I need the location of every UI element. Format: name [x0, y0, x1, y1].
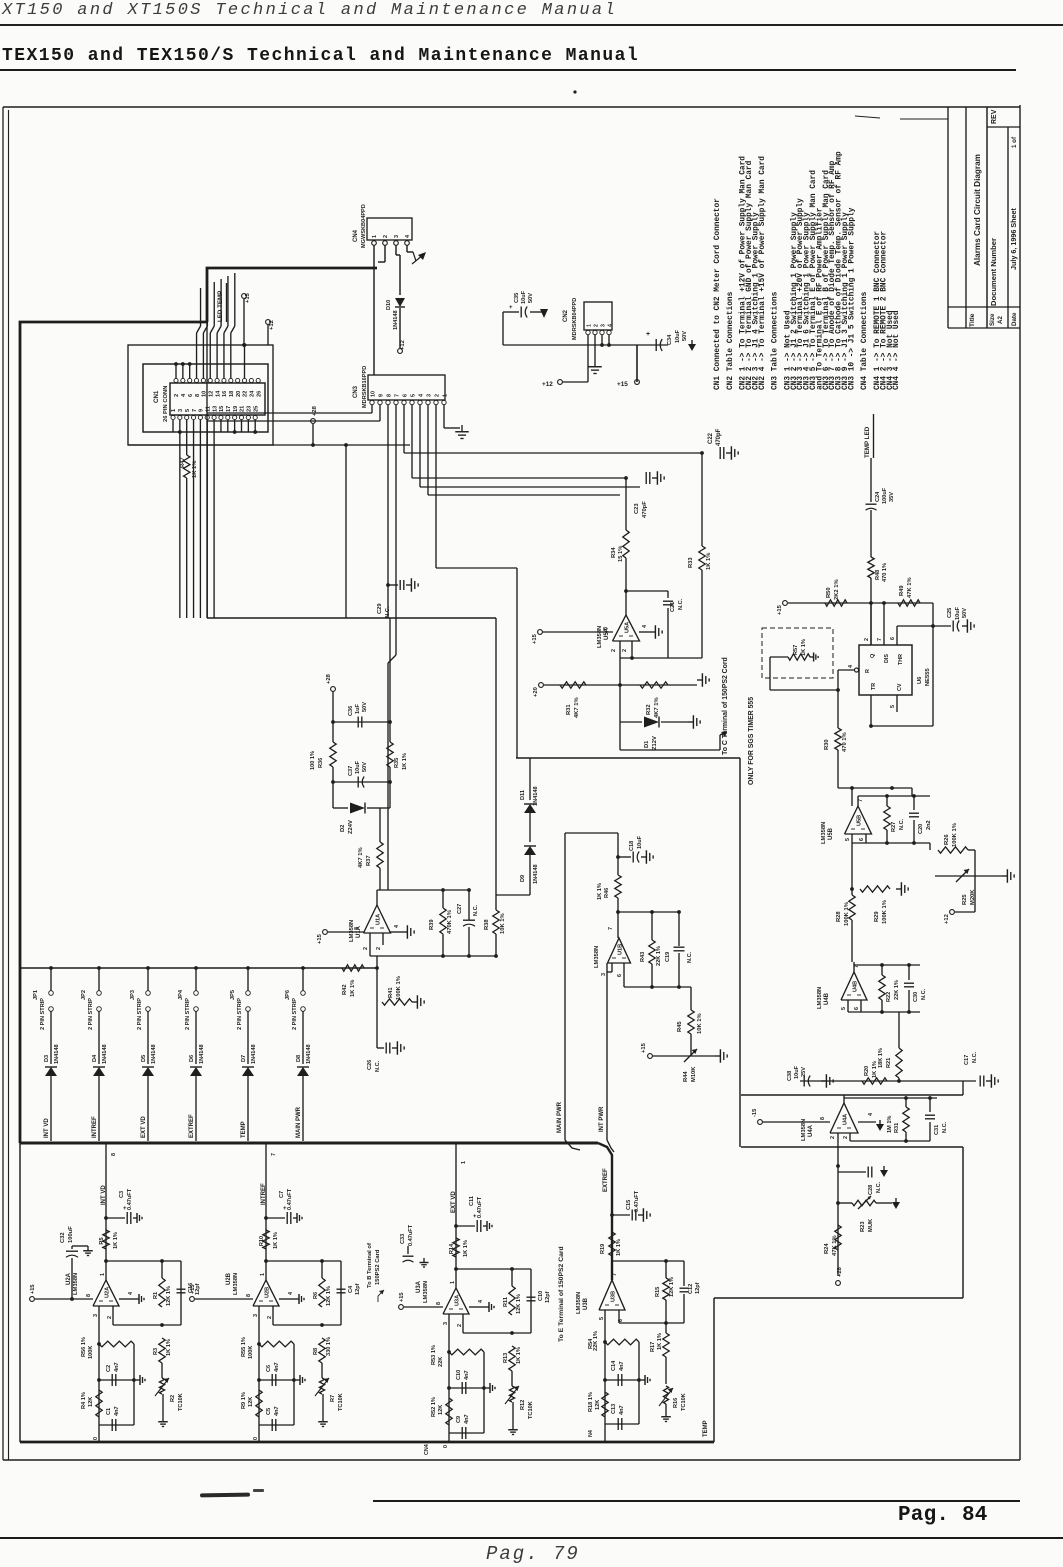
svg-text:2: 2: [593, 324, 599, 327]
svg-text:1 of: 1 of: [1011, 136, 1018, 148]
svg-text:CN3 Table Connections: CN3 Table Connections: [772, 291, 780, 390]
svg-text:R2: R2: [170, 1395, 176, 1402]
svg-text:1K 1%: 1K 1%: [516, 1347, 522, 1364]
svg-text:100K 1%: 100K 1%: [882, 900, 888, 924]
svg-text:N.C.: N.C.: [687, 951, 693, 963]
svg-text:4: 4: [642, 625, 648, 628]
svg-text:N.C.: N.C.: [385, 606, 391, 618]
svg-text:10uF: 10uF: [355, 760, 361, 774]
svg-text:N.C.: N.C.: [972, 1051, 978, 1063]
svg-text:6: 6: [859, 838, 865, 841]
svg-text:+12: +12: [269, 320, 275, 330]
svg-text:D1: D1: [644, 740, 650, 748]
svg-text:0: 0: [93, 1437, 99, 1440]
svg-text:100uF: 100uF: [882, 487, 888, 504]
svg-text:D2: D2: [340, 825, 346, 832]
svg-text:D4: D4: [92, 1054, 98, 1062]
svg-text:EXT VD: EXT VD: [141, 1116, 147, 1138]
svg-text:R1: R1: [153, 1292, 159, 1299]
svg-text:Q: Q: [870, 654, 876, 658]
svg-text:1: 1: [260, 1273, 266, 1276]
svg-text:50V: 50V: [362, 762, 368, 772]
svg-text:1N4148: 1N4148: [199, 1044, 205, 1064]
svg-text:8: 8: [603, 627, 609, 630]
svg-text:CN1 Connected to CN2 Meter Cor: CN1 Connected to CN2 Meter Cord Connecto…: [714, 198, 722, 390]
svg-text:3: 3: [426, 394, 432, 397]
svg-text:10K 1%: 10K 1%: [500, 913, 506, 934]
svg-text:+28: +28: [837, 1266, 843, 1277]
svg-text:LM358N: LM358N: [817, 987, 823, 1009]
svg-text:5: 5: [599, 1317, 605, 1320]
svg-text:0.47uFT: 0.47uFT: [634, 1190, 640, 1212]
svg-text:100K 1%: 100K 1%: [844, 902, 850, 926]
svg-text:EXTREF: EXTREF: [189, 1114, 195, 1138]
svg-text:2: 2: [843, 1136, 849, 1139]
svg-text:6: 6: [402, 394, 408, 397]
svg-text:C6: C6: [266, 1365, 272, 1372]
svg-text:LM358N: LM358N: [821, 822, 827, 844]
svg-text:To E Terminal of 150PS2 Card: To E Terminal of 150PS2 Card: [558, 1246, 565, 1342]
svg-text:C17: C17: [964, 1055, 970, 1065]
svg-text:2: 2: [267, 1316, 273, 1319]
svg-text:7: 7: [612, 1273, 618, 1276]
svg-text:0.47uFT: 0.47uFT: [477, 1196, 483, 1218]
svg-text:U1B: U1B: [618, 944, 624, 955]
svg-text:R41: R41: [388, 987, 394, 998]
svg-text:2: 2: [457, 1324, 463, 1327]
svg-text:4n7: 4n7: [619, 1361, 625, 1371]
svg-text:1: 1: [461, 1161, 467, 1164]
svg-text:+15: +15: [30, 1285, 36, 1295]
svg-text:M10K: M10K: [691, 1066, 697, 1082]
svg-text:U2B: U2B: [226, 1272, 232, 1285]
svg-text:EXT VD: EXT VD: [451, 1191, 457, 1213]
svg-text:INT VD: INT VD: [101, 1185, 107, 1205]
svg-text:C22: C22: [708, 432, 714, 444]
svg-text:R48: R48: [875, 570, 881, 580]
svg-text:1N4148: 1N4148: [533, 864, 539, 884]
svg-text:R28: R28: [836, 911, 842, 922]
svg-text:5: 5: [890, 705, 896, 708]
svg-text:C3: C3: [119, 1191, 125, 1198]
svg-text:25V: 25V: [801, 1067, 807, 1077]
svg-text:U2B: U2B: [265, 1287, 271, 1298]
svg-text:R5: R5: [99, 1237, 105, 1244]
svg-text:Z12V: Z12V: [652, 736, 658, 750]
svg-text:INT VD: INT VD: [44, 1118, 50, 1138]
svg-text:C29: C29: [377, 603, 383, 614]
svg-text:6: 6: [854, 1007, 860, 1010]
svg-text:C34: C34: [667, 334, 673, 345]
svg-text:2: 2: [830, 1136, 836, 1139]
svg-text:8: 8: [195, 394, 201, 397]
svg-text:MGWSKB04PPD: MGWSKB04PPD: [361, 204, 367, 248]
svg-text:4: 4: [848, 665, 854, 668]
svg-text:10uF: 10uF: [675, 329, 681, 343]
svg-text:3: 3: [93, 1314, 99, 1317]
svg-text:A2: A2: [997, 316, 1004, 324]
svg-text:R44: R44: [683, 1071, 689, 1082]
svg-text:R50: R50: [826, 587, 832, 598]
svg-text:3: 3: [600, 324, 606, 327]
svg-text:+15: +15: [190, 1285, 196, 1295]
svg-text:R45: R45: [677, 1021, 683, 1032]
svg-text:35V: 35V: [889, 492, 895, 502]
svg-text:R33: R33: [688, 557, 694, 568]
svg-text:100K: 100K: [88, 1346, 94, 1359]
svg-text:1N4148: 1N4148: [533, 786, 539, 806]
svg-text:3: 3: [394, 235, 400, 238]
svg-text:4n7: 4n7: [114, 1362, 120, 1372]
svg-text:4n7: 4n7: [464, 1370, 470, 1380]
svg-text:2 PIN STRIP: 2 PIN STRIP: [185, 998, 191, 1030]
svg-text:JP6: JP6: [285, 990, 291, 1000]
svg-text:4K7 1%: 4K7 1%: [574, 697, 580, 718]
svg-text:1K 1%: 1K 1%: [616, 1239, 622, 1256]
svg-text:C18: C18: [629, 841, 635, 851]
svg-text:100 1%: 100 1%: [310, 751, 316, 770]
svg-text:4: 4: [478, 1300, 484, 1303]
svg-text:C19: C19: [665, 952, 671, 962]
svg-text:10uF: 10uF: [955, 606, 961, 620]
svg-text:0: 0: [253, 1437, 259, 1440]
svg-text:TEMP LED: TEMP LED: [864, 426, 871, 458]
svg-text:8: 8: [820, 1117, 826, 1120]
svg-text:TEMP: TEMP: [703, 1420, 709, 1437]
svg-text:+12: +12: [542, 381, 553, 388]
svg-text:8: 8: [246, 1294, 252, 1297]
svg-text:N.C.: N.C.: [942, 1121, 948, 1133]
svg-text:R: R: [865, 669, 871, 673]
svg-text:N.C.: N.C.: [375, 1060, 381, 1072]
svg-text:12K 1%: 12K 1%: [669, 1277, 675, 1297]
svg-text:R7: R7: [330, 1395, 336, 1402]
svg-text:D7: D7: [241, 1055, 247, 1062]
svg-text:C5: C5: [266, 1408, 272, 1415]
svg-text:LM358N: LM358N: [423, 1281, 429, 1303]
svg-text:8: 8: [86, 1294, 92, 1297]
svg-text:19: 19: [233, 406, 239, 412]
svg-text:REV: REV: [991, 109, 998, 124]
svg-text:C14: C14: [611, 1360, 617, 1371]
svg-text:To B Terminal of: To B Terminal of: [367, 1243, 373, 1288]
svg-text:1: 1: [442, 394, 448, 397]
svg-text:12K 1%: 12K 1%: [326, 1286, 332, 1306]
svg-text:2 PIN STRIP: 2 PIN STRIP: [237, 998, 243, 1030]
svg-text:2 PIN STRIP: 2 PIN STRIP: [40, 998, 46, 1030]
svg-text:N.C.: N.C.: [876, 1181, 882, 1193]
svg-text:1uF: 1uF: [355, 703, 361, 714]
svg-text:C11: C11: [469, 1196, 475, 1206]
svg-text:2n2: 2n2: [926, 820, 932, 830]
svg-text:2: 2: [622, 649, 628, 652]
svg-text:330 1%: 330 1%: [326, 1337, 332, 1356]
svg-text:N.C.: N.C.: [473, 904, 479, 916]
svg-text:1K 1%: 1K 1%: [801, 639, 807, 656]
svg-text:MDRSKB04PPD: MDRSKB04PPD: [572, 298, 578, 340]
svg-text:C38: C38: [787, 1071, 793, 1081]
svg-text:ONLY FOR SGS TIMER 555: ONLY FOR SGS TIMER 555: [748, 697, 755, 785]
svg-text:R20: R20: [864, 1066, 870, 1076]
svg-text:R12: R12: [520, 1400, 526, 1410]
svg-text:N4: N4: [588, 1430, 594, 1437]
svg-text:1K 1%: 1K 1%: [192, 461, 198, 478]
svg-text:+28: +28: [326, 673, 332, 684]
svg-text:18K 1%: 18K 1%: [878, 1048, 884, 1068]
svg-text:R52 1%: R52 1%: [431, 1397, 437, 1417]
svg-text:R46: R46: [604, 888, 610, 898]
svg-text:0.47uFT: 0.47uFT: [287, 1188, 293, 1210]
svg-text:MAIN PWR: MAIN PWR: [557, 1101, 563, 1133]
svg-text:1: 1: [171, 409, 177, 412]
svg-text:470pF: 470pF: [716, 428, 722, 446]
svg-text:R53 1%: R53 1%: [431, 1345, 437, 1365]
svg-text:12pf: 12pf: [695, 1282, 701, 1294]
svg-text:C23: C23: [634, 503, 640, 514]
svg-text:4: 4: [128, 1292, 134, 1295]
svg-text:12K 1%: 12K 1%: [516, 1294, 522, 1314]
svg-text:-15: -15: [752, 1108, 758, 1117]
svg-text:100K 1%: 100K 1%: [952, 823, 958, 847]
svg-text:LM358N: LM358N: [576, 1292, 582, 1314]
svg-text:1K 1%: 1K 1%: [657, 1333, 663, 1350]
svg-text:22K 1%: 22K 1%: [656, 946, 662, 966]
svg-text:9: 9: [378, 394, 384, 397]
svg-text:1N4148: 1N4148: [251, 1044, 257, 1064]
svg-text:C1: C1: [106, 1408, 112, 1415]
svg-text:+15: +15: [399, 1293, 405, 1303]
svg-text:1: 1: [372, 235, 378, 238]
svg-text:4K7 1%: 4K7 1%: [654, 697, 660, 718]
svg-text:R22: R22: [886, 992, 892, 1002]
svg-text:+15: +15: [617, 381, 628, 388]
svg-text:R55 1%: R55 1%: [241, 1337, 247, 1357]
svg-text:C15: C15: [626, 1200, 632, 1210]
svg-text:1N4148: 1N4148: [306, 1044, 312, 1064]
svg-text:JP5: JP5: [230, 990, 236, 1000]
svg-text:+12: +12: [944, 914, 950, 924]
svg-text:1K 1%: 1K 1%: [402, 753, 408, 770]
svg-text:+28: +28: [312, 405, 318, 416]
svg-text:C12: C12: [688, 1284, 694, 1294]
svg-text:U5B: U5B: [857, 815, 863, 826]
svg-text:NE555: NE555: [925, 667, 931, 686]
svg-text:R19: R19: [600, 1244, 606, 1254]
svg-text:C25: C25: [947, 608, 953, 618]
svg-text:U5B: U5B: [828, 827, 834, 840]
svg-text:C32: C32: [60, 1232, 66, 1243]
svg-text:1K 1%: 1K 1%: [597, 883, 603, 900]
svg-text:N.C.: N.C.: [921, 988, 927, 1000]
svg-text:+15: +15: [641, 1042, 647, 1053]
svg-text:R14: R14: [449, 1243, 455, 1254]
svg-text:10: 10: [370, 391, 376, 397]
svg-text:R30: R30: [824, 739, 830, 750]
svg-text:C10: C10: [538, 1291, 544, 1301]
svg-text:R16: R16: [673, 1398, 679, 1408]
svg-text:+15: +15: [245, 292, 251, 303]
svg-text:R9 1%: R9 1%: [241, 1392, 247, 1409]
svg-text:N.C.: N.C.: [678, 598, 684, 610]
svg-text:1N4148: 1N4148: [393, 310, 399, 330]
svg-text:13: 13: [212, 406, 218, 412]
svg-text:R15: R15: [655, 1287, 661, 1297]
svg-text:7: 7: [192, 409, 198, 412]
svg-text:U4B: U4B: [824, 992, 830, 1005]
svg-text:4: 4: [607, 324, 613, 327]
svg-text:U1A: U1A: [376, 914, 382, 925]
svg-text:12K: 12K: [438, 1405, 444, 1415]
svg-text:50V: 50V: [962, 608, 968, 618]
svg-text:C28: C28: [868, 1185, 874, 1195]
svg-text:D3: D3: [44, 1055, 50, 1062]
svg-text:470 1%: 470 1%: [882, 563, 888, 582]
svg-text:D10: D10: [386, 300, 392, 310]
svg-text:150PS2 Card: 150PS2 Card: [375, 1249, 381, 1285]
svg-text:12K: 12K: [248, 1397, 254, 1407]
svg-text:R34: R34: [611, 547, 617, 558]
svg-text:+: +: [646, 331, 650, 338]
svg-text:U2A: U2A: [105, 1287, 111, 1298]
svg-text:10uF: 10uF: [637, 835, 643, 849]
svg-text:3: 3: [253, 1314, 259, 1317]
svg-text:R56 1%: R56 1%: [81, 1337, 87, 1357]
svg-text:470 1%: 470 1%: [842, 732, 848, 752]
svg-text:+15: +15: [777, 604, 783, 615]
svg-text:D5: D5: [141, 1055, 147, 1062]
svg-text:1K 1%: 1K 1%: [113, 1232, 119, 1249]
svg-text:INTREF: INTREF: [92, 1116, 98, 1138]
svg-text:TC10K: TC10K: [338, 1393, 344, 1411]
svg-text:10uF: 10uF: [521, 290, 527, 304]
svg-text:470K 1%: 470K 1%: [447, 910, 453, 934]
svg-text:2: 2: [864, 638, 870, 641]
svg-text:+15: +15: [317, 933, 323, 944]
svg-text:LM358N: LM358N: [233, 1273, 239, 1295]
svg-text:July 6, 1996 Sheet: July 6, 1996 Sheet: [1009, 207, 1018, 270]
svg-text:MDRSKB16PPD: MDRSKB16PPD: [362, 366, 368, 408]
svg-text:R3: R3: [153, 1348, 159, 1355]
svg-text:6: 6: [890, 637, 896, 640]
svg-text:1N4148: 1N4148: [102, 1044, 108, 1064]
svg-text:CN4: CN4: [424, 1444, 430, 1455]
svg-text:R27: R27: [891, 822, 897, 832]
svg-text:U4A: U4A: [843, 1114, 849, 1125]
svg-text:CN2 4 -> To Terminal +15V of: CN2 4 -> To Terminal +15V of Power Suppl…: [759, 156, 767, 390]
svg-text:R37: R37: [366, 855, 372, 866]
svg-text:R36: R36: [318, 758, 324, 768]
svg-text:50V: 50V: [528, 293, 534, 303]
svg-text:R43: R43: [640, 952, 646, 962]
svg-text:CN4 4 -> Not Used: CN4 4 -> Not Used: [893, 310, 901, 390]
svg-text:C33: C33: [400, 1234, 406, 1244]
svg-text:1: 1: [100, 1273, 106, 1276]
svg-text:2K2 1%: 2K2 1%: [834, 579, 840, 600]
svg-text:4: 4: [405, 235, 411, 238]
svg-text:CN2: CN2: [563, 309, 569, 322]
svg-text:LM358N: LM358N: [594, 946, 600, 968]
svg-text:R47: R47: [180, 457, 186, 468]
svg-text:1K 1%: 1K 1%: [463, 1240, 469, 1257]
svg-text:7: 7: [877, 638, 883, 641]
svg-text:100uF: 100uF: [68, 1226, 74, 1243]
svg-text:3: 3: [601, 973, 607, 976]
svg-text:R31: R31: [566, 704, 572, 715]
svg-text:U3B: U3B: [611, 1291, 617, 1302]
svg-text:50V: 50V: [682, 331, 688, 341]
svg-text:C35: C35: [514, 293, 520, 303]
svg-text:+: +: [509, 305, 513, 311]
svg-text:2: 2: [174, 394, 180, 397]
svg-text:U2A: U2A: [66, 1272, 72, 1285]
svg-text:D9: D9: [520, 875, 526, 882]
svg-text:TC10K: TC10K: [528, 1401, 534, 1419]
svg-text:2 PIN STRIP: 2 PIN STRIP: [292, 998, 298, 1030]
svg-text:15 1%: 15 1%: [618, 546, 624, 562]
svg-text:14: 14: [215, 390, 221, 397]
svg-text:CN2 Table Connections: CN2 Table Connections: [727, 291, 735, 390]
svg-text:22: 22: [243, 391, 249, 397]
svg-text:N.C.: N.C.: [899, 818, 905, 830]
svg-text:TEMP: TEMP: [241, 1121, 247, 1138]
svg-text:C2: C2: [106, 1365, 112, 1372]
svg-text:100K: 100K: [248, 1346, 254, 1359]
svg-text:To C Terminal of 150PS2 Cord: To C Terminal of 150PS2 Cord: [722, 657, 729, 755]
svg-text:24: 24: [250, 390, 256, 397]
svg-text:MUK: MUK: [868, 1218, 874, 1232]
svg-text:12pf: 12pf: [355, 1283, 361, 1295]
svg-text:8: 8: [111, 1153, 117, 1156]
svg-text:25: 25: [253, 406, 259, 412]
svg-text:1K 1%: 1K 1%: [350, 980, 356, 997]
svg-text:12: 12: [208, 391, 214, 397]
svg-text:JP4: JP4: [178, 989, 184, 1000]
svg-text:R42: R42: [342, 984, 348, 995]
svg-text:C26: C26: [367, 1060, 373, 1070]
svg-text:R39: R39: [429, 919, 435, 930]
svg-text:U3B: U3B: [583, 1297, 589, 1310]
svg-text:6: 6: [188, 394, 194, 397]
svg-text:R21: R21: [886, 1058, 892, 1068]
svg-text:1K 1%: 1K 1%: [706, 553, 712, 570]
svg-text:C37: C37: [348, 766, 354, 776]
svg-text:4K7 1%: 4K7 1%: [358, 847, 364, 868]
svg-text:D6: D6: [189, 1055, 195, 1062]
svg-text:8: 8: [386, 394, 392, 397]
svg-text:4n7: 4n7: [114, 1406, 120, 1416]
svg-text:4n7: 4n7: [619, 1405, 625, 1415]
svg-text:R17: R17: [650, 1342, 656, 1352]
svg-text:CN4 Table Connections: CN4 Table Connections: [861, 291, 869, 390]
svg-text:470pF: 470pF: [642, 501, 648, 518]
svg-text:47K 1%: 47K 1%: [832, 1235, 838, 1256]
svg-text:C31: C31: [934, 1125, 940, 1135]
svg-text:INT PWR: INT PWR: [599, 1106, 605, 1132]
svg-text:Document Number: Document Number: [989, 238, 998, 306]
svg-text:0.47uFT: 0.47uFT: [408, 1224, 414, 1246]
svg-text:47K 1%: 47K 1%: [907, 577, 913, 598]
svg-text:1: 1: [450, 1281, 456, 1284]
svg-text:R11: R11: [503, 1297, 509, 1307]
svg-text:4: 4: [868, 1113, 874, 1116]
svg-text:LED TEMP: LED TEMP: [217, 291, 224, 322]
svg-text:2: 2: [107, 1316, 113, 1319]
svg-text:R24: R24: [824, 1243, 830, 1254]
svg-text:4n7: 4n7: [464, 1414, 470, 1424]
svg-text:26 PIN CONN: 26 PIN CONN: [163, 386, 169, 422]
svg-text:R32: R32: [646, 704, 652, 715]
svg-text:50V: 50V: [362, 702, 368, 712]
